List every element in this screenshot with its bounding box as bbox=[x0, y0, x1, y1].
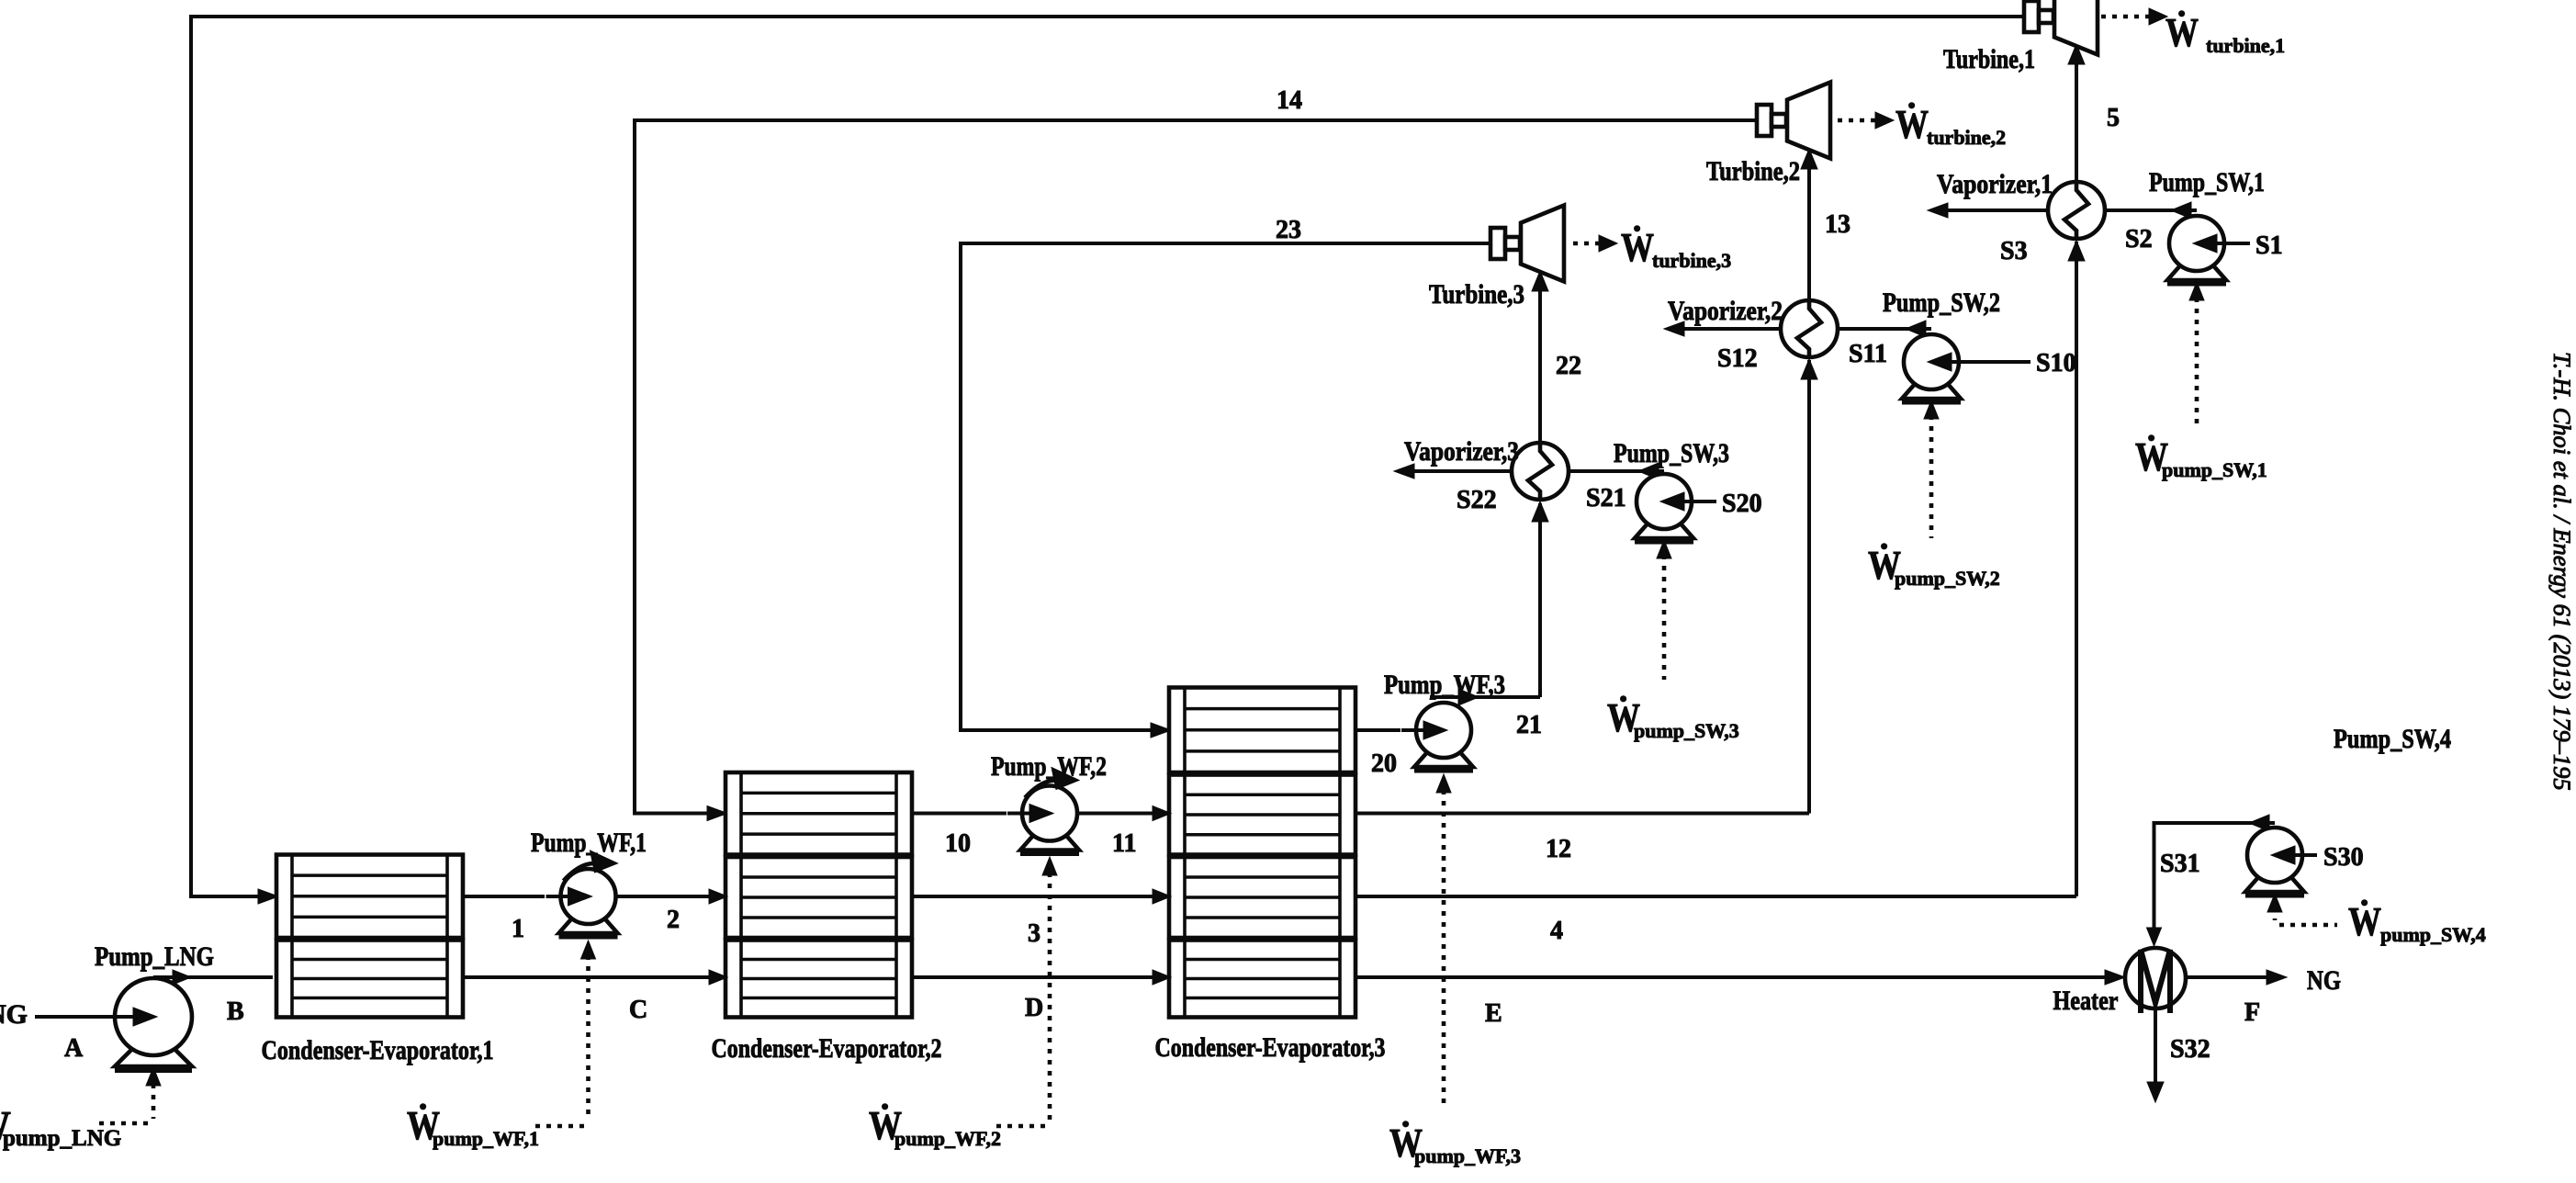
label NG bbox=[2307, 965, 2341, 996]
svg-text:S32: S32 bbox=[2170, 1035, 2210, 1064]
label Vaporizer,3 bbox=[1404, 436, 1519, 467]
svg-text:3: 3 bbox=[1028, 919, 1041, 948]
svg-text:S12: S12 bbox=[1717, 344, 1758, 373]
label 10 bbox=[945, 829, 971, 858]
svg-text:Turbine,2: Turbine,2 bbox=[1706, 156, 1800, 186]
wire stream 11 : Pump_WF,2 to Condenser-Evaporator,3 bbox=[1077, 806, 1171, 821]
label 4 bbox=[1550, 917, 1563, 945]
label S21 bbox=[1586, 484, 1626, 513]
svg-text:B: B bbox=[227, 997, 244, 1026]
turbine Turbine,2 bbox=[1757, 83, 1830, 159]
svg-text:E: E bbox=[1485, 999, 1502, 1028]
label W_pump_WF,3 bbox=[1389, 1121, 1521, 1167]
turbine Turbine,1 bbox=[2024, 0, 2098, 55]
label 20 bbox=[1371, 749, 1397, 778]
label 3 bbox=[1028, 919, 1041, 948]
pump Pump_WF,3 bbox=[1401, 703, 1473, 771]
svg-text:Pump_SW,1: Pump_SW,1 bbox=[2149, 167, 2265, 197]
wire stream S10 : seawater inlet to Pump_SW,2 bbox=[1959, 349, 2076, 377]
wire stream S32 : Heater seawater outlet bbox=[2147, 1008, 2164, 1102]
label Condenser-Evaporator,3 bbox=[1155, 1032, 1386, 1063]
pump Pump_SW,4 bbox=[2245, 828, 2317, 896]
svg-text:22: 22 bbox=[1556, 352, 1581, 380]
svg-text:pump_SW,1: pump_SW,1 bbox=[2162, 458, 2267, 481]
wire stream 3 : CE2 to Condenser-Evaporator,3 bbox=[912, 889, 1171, 904]
svg-text:turbine,1: turbine,1 bbox=[2206, 34, 2285, 57]
wire stream 22 : Vaporizer,3 to Turbine,3 bbox=[1532, 271, 1548, 443]
label W_turbine,3 bbox=[1621, 225, 1731, 272]
svg-text:turbine,2: turbine,2 bbox=[1927, 126, 2006, 149]
wire stream 5 : Vaporizer,1 to Turbine,1 bbox=[2068, 44, 2085, 182]
wire stream 4 : CE3 up to Vaporizer,1 bbox=[1355, 241, 2085, 896]
dashed work input arrow to Pump_WF,3 bbox=[1436, 774, 1451, 1110]
heat exchanger Vaporizer,1 bbox=[2048, 182, 2105, 239]
node B bbox=[227, 997, 244, 1026]
label S12 bbox=[1717, 344, 1758, 373]
label Vaporizer,1 bbox=[1937, 169, 2053, 199]
svg-text:11: 11 bbox=[1112, 829, 1136, 858]
dashed work input arrow to Pump_WF,2 bbox=[991, 857, 1057, 1126]
dashed work input arrow to Pump_SW,4 bbox=[2267, 894, 2337, 925]
svg-text:S10: S10 bbox=[2036, 349, 2076, 377]
svg-text:Pump_SW,4: Pump_SW,4 bbox=[2334, 724, 2451, 754]
label W_turbine,2 bbox=[1895, 102, 2006, 149]
svg-text:14: 14 bbox=[1277, 86, 1302, 115]
svg-text:S31: S31 bbox=[2160, 850, 2200, 878]
label W_pump_WF,1 bbox=[407, 1103, 539, 1150]
svg-text:F: F bbox=[2244, 998, 2260, 1027]
svg-text:Turbine,1: Turbine,1 bbox=[1943, 44, 2035, 74]
label 21 bbox=[1516, 711, 1542, 739]
dashed work input arrow to Pump_SW,2 bbox=[1924, 400, 1939, 538]
label Pump_WF,2 bbox=[991, 751, 1107, 782]
dashed work input arrow to Pump_SW,3 bbox=[1657, 540, 1671, 680]
dashed work output arrow of Turbine,2 bbox=[1838, 112, 1894, 129]
label S32 bbox=[2170, 1035, 2210, 1064]
label 22 bbox=[1556, 352, 1581, 380]
wire stream S21 : Pump_SW,3 to Vaporizer,3 bbox=[1569, 463, 1664, 479]
wire stream D : CE2 to CE3 bbox=[912, 970, 1171, 985]
node E bbox=[1485, 999, 1502, 1028]
svg-text:10: 10 bbox=[945, 829, 971, 858]
node A bbox=[64, 1034, 84, 1063]
svg-text:LNG: LNG bbox=[0, 999, 28, 1030]
label 13 bbox=[1825, 210, 1850, 239]
dashed work input arrow to Pump_LNG bbox=[97, 1067, 161, 1123]
wire stream S30 : seawater inlet to Pump_SW,4 bbox=[2302, 843, 2364, 872]
svg-text:NG: NG bbox=[2307, 965, 2341, 996]
svg-text:S3: S3 bbox=[2000, 237, 2028, 265]
wire stream 6 : Turbine,1 exhaust loop to Condenser-Evaporator,1 bbox=[191, 17, 2024, 904]
svg-text:Condenser-Evaporator,2: Condenser-Evaporator,2 bbox=[712, 1033, 942, 1064]
label W_pump_LNG (clipped at left edge) bbox=[0, 1103, 121, 1151]
node F bbox=[2244, 998, 2260, 1027]
label W_pump_SW,1 bbox=[2135, 434, 2267, 481]
label Pump_SW,4 bbox=[2334, 724, 2451, 754]
wire stream C : CE1 to CE2 bbox=[463, 970, 727, 985]
svg-text:pump_WF,3: pump_WF,3 bbox=[1414, 1144, 1521, 1167]
svg-text:Vaporizer,1: Vaporizer,1 bbox=[1937, 169, 2053, 199]
heat exchanger Vaporizer,3 bbox=[1512, 443, 1569, 500]
label 11 bbox=[1112, 829, 1136, 858]
label S3 bbox=[2000, 237, 2028, 265]
svg-text:12: 12 bbox=[1546, 835, 1571, 863]
label Heater bbox=[2053, 986, 2119, 1016]
label Pump_SW,3 bbox=[1614, 438, 1729, 468]
journal running head (rotated) bbox=[2548, 352, 2576, 791]
svg-text:Turbine,3: Turbine,3 bbox=[1429, 279, 1524, 310]
svg-text:2: 2 bbox=[667, 906, 680, 934]
label W_pump_SW,4 bbox=[2348, 899, 2486, 946]
svg-text:4: 4 bbox=[1550, 917, 1563, 945]
heater Heater (M symbol) bbox=[2125, 948, 2186, 1013]
wire stream S2 : Pump_SW,1 to Vaporizer,1 bbox=[2105, 202, 2197, 219]
svg-text:Heater: Heater bbox=[2053, 986, 2119, 1016]
wire stream S12 : Vaporizer,2 seawater outlet bbox=[1664, 321, 1781, 336]
svg-text:turbine,3: turbine,3 bbox=[1652, 249, 1731, 272]
svg-text:1: 1 bbox=[512, 915, 524, 943]
svg-text:A: A bbox=[64, 1034, 84, 1063]
svg-text:21: 21 bbox=[1516, 711, 1542, 739]
label S22 bbox=[1457, 486, 1497, 514]
label Condenser-Evaporator,1 bbox=[262, 1035, 494, 1065]
wire stream S22 : Vaporizer,3 seawater outlet bbox=[1394, 464, 1512, 479]
wire stream 1 : CE1 to Pump_WF,1 bbox=[463, 895, 545, 898]
svg-text:Pump_SW,3: Pump_SW,3 bbox=[1614, 438, 1729, 468]
turbine Turbine,3 bbox=[1490, 206, 1564, 282]
heat exchanger Vaporizer,2 bbox=[1781, 300, 1838, 357]
label Condenser-Evaporator,2 bbox=[712, 1033, 942, 1064]
label W_pump_WF,2 bbox=[869, 1103, 1001, 1150]
svg-text:S20: S20 bbox=[1722, 490, 1762, 518]
wire stream 14 : Turbine,2 exhaust loop to Condenser-Evaporator,2 bbox=[635, 120, 1757, 821]
svg-text:Pump_WF,1: Pump_WF,1 bbox=[531, 828, 647, 858]
svg-text:D: D bbox=[1025, 994, 1043, 1022]
svg-text:20: 20 bbox=[1371, 749, 1397, 778]
label W_pump_SW,2 bbox=[1868, 543, 2000, 590]
wire stream B : Pump_LNG outlet to Condenser-Evaporator,1 bbox=[153, 970, 273, 985]
pump Pump_WF,1 bbox=[546, 851, 618, 937]
wire stream 23 : Turbine,3 exhaust loop to Condenser-Evaporator,3 bbox=[961, 243, 1490, 738]
node D bbox=[1025, 994, 1043, 1022]
wire stream S1 : seawater inlet to Pump_SW,1 bbox=[2224, 231, 2283, 260]
label W_pump_SW,3 bbox=[1607, 695, 1739, 742]
label Turbine,2 bbox=[1706, 156, 1800, 186]
wire stream 12 : CE3 up to Vaporizer,2 bbox=[1355, 359, 1817, 814]
pump Pump_SW,2 bbox=[1902, 334, 1974, 402]
svg-text:pump_LNG: pump_LNG bbox=[3, 1126, 121, 1151]
svg-text:pump_SW,2: pump_SW,2 bbox=[1895, 567, 2000, 590]
pump Pump_SW,3 bbox=[1635, 474, 1706, 542]
svg-text:13: 13 bbox=[1825, 210, 1850, 239]
label Pump_SW,2 bbox=[1883, 287, 2000, 318]
label LNG (clipped at edge) bbox=[0, 999, 28, 1030]
label 2 bbox=[667, 906, 680, 934]
node C bbox=[629, 996, 647, 1024]
svg-text:Vaporizer,3: Vaporizer,3 bbox=[1404, 436, 1519, 467]
wire stream S20 : seawater inlet to Pump_SW,3 bbox=[1692, 490, 1762, 518]
wire stream 21 : Pump_WF,3 outlet up to Vaporizer,3 bbox=[1430, 501, 1548, 705]
label Vaporizer,2 bbox=[1668, 296, 1783, 326]
wire stream E : CE3 to Heater bbox=[1355, 970, 2125, 985]
dashed work output arrow of Turbine,1 bbox=[2101, 8, 2167, 25]
svg-text:Vaporizer,2: Vaporizer,2 bbox=[1668, 296, 1783, 326]
dashed work input arrow to Pump_SW,1 bbox=[2189, 282, 2204, 424]
wire stream A : LNG feed into Pump_LNG bbox=[35, 1015, 119, 1019]
svg-text:S1: S1 bbox=[2255, 231, 2283, 260]
svg-text:Pump_LNG: Pump_LNG bbox=[95, 941, 214, 972]
wire stream S3 : Vaporizer,1 seawater outlet bbox=[1928, 203, 2048, 218]
label W_turbine,1 bbox=[2165, 10, 2285, 57]
wire stream NG : Heater outlet bbox=[2186, 970, 2287, 985]
svg-text:Condenser-Evaporator,1: Condenser-Evaporator,1 bbox=[262, 1035, 494, 1065]
pump Pump_WF,2 bbox=[1007, 768, 1079, 854]
wire stream S11 : Pump_SW,2 to Vaporizer,2 bbox=[1838, 321, 1931, 337]
label Pump_WF,3 bbox=[1384, 670, 1505, 700]
svg-text:pump_SW,4: pump_SW,4 bbox=[2380, 923, 2486, 946]
label Pump_SW,1 bbox=[2149, 167, 2265, 197]
label Turbine,1 bbox=[1943, 44, 2035, 74]
svg-text:S11: S11 bbox=[1849, 340, 1887, 368]
dashed work output arrow of Turbine,3 bbox=[1573, 235, 1617, 252]
svg-text:5: 5 bbox=[2107, 104, 2120, 132]
label Turbine,3 bbox=[1429, 279, 1524, 310]
label 23 bbox=[1276, 216, 1301, 244]
wire stream 10 : CE2 to Pump_WF,2 bbox=[912, 812, 1007, 816]
pump Pump_SW,1 bbox=[2167, 216, 2239, 284]
svg-text:S30: S30 bbox=[2323, 843, 2364, 872]
svg-text:T.-H. Choi et al. / Energy 61: T.-H. Choi et al. / Energy 61 (2013) 179… bbox=[2548, 352, 2576, 791]
label S31 bbox=[2160, 850, 2200, 878]
svg-text:23: 23 bbox=[1276, 216, 1301, 244]
label 5 bbox=[2107, 104, 2120, 132]
label Pump_LNG bbox=[95, 941, 214, 972]
wire stream S31 : Pump_SW,4 to Heater bbox=[2147, 815, 2276, 946]
svg-text:pump_WF,1: pump_WF,1 bbox=[433, 1127, 539, 1150]
svg-text:S2: S2 bbox=[2125, 225, 2153, 253]
wire stream 20 : CE3 to Pump_WF,3 bbox=[1355, 728, 1400, 732]
svg-text:pump_WF,2: pump_WF,2 bbox=[894, 1127, 1001, 1150]
wire stream 13 : Vaporizer,2 to Turbine,2 bbox=[1801, 149, 1817, 300]
label S11 bbox=[1849, 340, 1887, 368]
label S2 bbox=[2125, 225, 2153, 253]
label Pump_WF,1 bbox=[531, 828, 647, 858]
svg-text:Condenser-Evaporator,3: Condenser-Evaporator,3 bbox=[1155, 1032, 1386, 1063]
label 12 bbox=[1546, 835, 1571, 863]
svg-text:S21: S21 bbox=[1586, 484, 1626, 513]
label 1 bbox=[512, 915, 524, 943]
wire stream 2 : Pump_WF,1 to Condenser-Evaporator,2 bbox=[616, 889, 728, 904]
svg-text:Pump_WF,2: Pump_WF,2 bbox=[991, 751, 1107, 782]
svg-text:Pump_SW,2: Pump_SW,2 bbox=[1883, 287, 2000, 318]
heat exchanger Condenser-Evaporator,3 bbox=[1169, 688, 1355, 1018]
pump Pump_LNG bbox=[100, 978, 192, 1070]
svg-text:pump_SW,3: pump_SW,3 bbox=[1634, 719, 1739, 742]
svg-text:C: C bbox=[629, 996, 647, 1024]
heat exchanger Condenser-Evaporator,1 bbox=[276, 855, 463, 1018]
svg-text:S22: S22 bbox=[1457, 486, 1497, 514]
label 14 bbox=[1277, 86, 1302, 115]
dashed work input arrow to Pump_WF,1 bbox=[529, 941, 596, 1126]
heat exchanger Condenser-Evaporator,2 bbox=[726, 772, 912, 1018]
